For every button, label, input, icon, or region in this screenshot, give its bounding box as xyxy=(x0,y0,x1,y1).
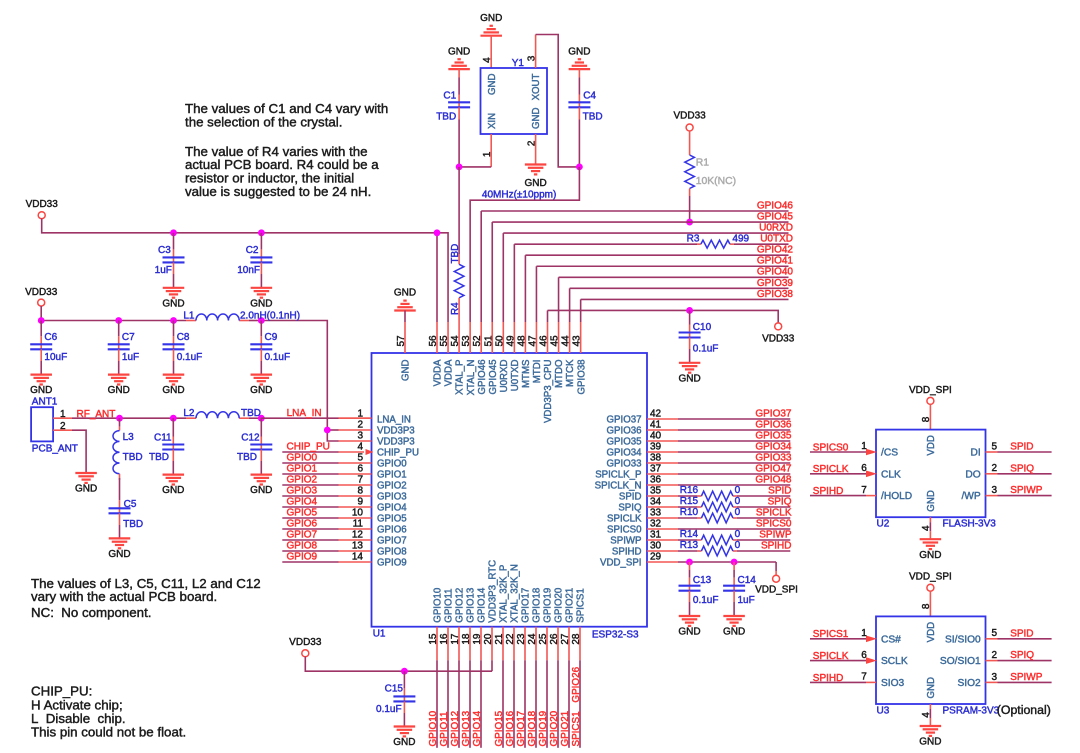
svg-text:GPIO10: GPIO10 xyxy=(433,587,444,623)
svg-text:GPIO20: GPIO20 xyxy=(554,587,565,623)
svg-text:34: 34 xyxy=(650,497,662,508)
svg-text:SPICS1: SPICS1 xyxy=(576,588,587,622)
svg-text:XTAL_P: XTAL_P xyxy=(455,360,466,395)
svg-text:DI: DI xyxy=(971,448,981,459)
wire C4 to gnd xyxy=(578,69,580,102)
wire GPIO9 net xyxy=(282,561,371,563)
svg-text:ESP32-S3: ESP32-S3 xyxy=(592,630,639,641)
svg-text:GPIO5: GPIO5 xyxy=(377,514,407,525)
svg-text:GND: GND xyxy=(531,107,542,129)
svg-text:38: 38 xyxy=(650,453,662,464)
svg-text:(Optional): (Optional) xyxy=(997,703,1051,717)
wire SPIWP net from U3 pin 3 xyxy=(986,681,1052,683)
svg-text:3: 3 xyxy=(992,485,998,496)
svg-text:PSRAM-3V3: PSRAM-3V3 xyxy=(943,706,1000,717)
svg-text:R10: R10 xyxy=(680,507,699,518)
U1 left pin numbers xyxy=(352,409,364,563)
junction C14 xyxy=(731,559,738,566)
Y1 pin 2 wire to gnd xyxy=(535,134,537,165)
svg-text:6: 6 xyxy=(861,463,867,474)
memory chip U3 xyxy=(876,616,1000,716)
wire U3 pin 4 to gnd xyxy=(929,704,931,726)
svg-text:XTAL_32K_P: XTAL_32K_P xyxy=(499,565,510,623)
svg-text:35: 35 xyxy=(650,486,662,497)
svg-text:6: 6 xyxy=(861,650,867,661)
svg-text:5: 5 xyxy=(992,628,998,639)
svg-text:SPIHD: SPIHD xyxy=(813,673,844,684)
svg-text:SPICLK_P: SPICLK_P xyxy=(595,470,641,481)
wire U2 pin 4 to gnd xyxy=(929,517,931,539)
svg-text:NC: No component.: NC: No component. xyxy=(31,605,151,620)
wire SPIWP net from U2 pin 3 xyxy=(986,495,1052,497)
svg-text:GPIO12: GPIO12 xyxy=(450,711,461,747)
svg-text:VDD: VDD xyxy=(926,435,937,455)
svg-text:0.1uF: 0.1uF xyxy=(265,352,291,363)
junction C10 xyxy=(686,307,693,314)
svg-text:GPIO17: GPIO17 xyxy=(516,711,527,747)
wire GPIO2 net xyxy=(282,484,371,486)
svg-text:C7: C7 xyxy=(122,332,135,343)
svg-text:1uF: 1uF xyxy=(122,352,139,363)
wire GPIO1 net xyxy=(282,473,371,475)
svg-text:GPIO48: GPIO48 xyxy=(755,475,792,486)
svg-text:VDD33: VDD33 xyxy=(762,333,795,344)
wire GPIO16 net (bottom) xyxy=(513,627,515,748)
gnd below C15 xyxy=(393,727,415,749)
svg-text:2.0nH(0.1nH): 2.0nH(0.1nH) xyxy=(240,310,300,321)
svg-text:VDD3P3: VDD3P3 xyxy=(377,437,415,448)
svg-text:VDDA: VDDA xyxy=(444,359,455,386)
wire GPIO46 net xyxy=(481,211,788,322)
svg-text:9: 9 xyxy=(357,497,363,508)
wire C2 to gnd xyxy=(260,262,262,287)
junction RF C11 xyxy=(170,415,177,422)
gnd below C11 xyxy=(162,475,184,497)
svg-text:10K(NC): 10K(NC) xyxy=(696,176,736,187)
svg-text:6: 6 xyxy=(357,464,363,475)
svg-text:VDD3P3: VDD3P3 xyxy=(377,426,415,437)
svg-text:GPIO9: GPIO9 xyxy=(287,552,318,563)
svg-text:GPIO18: GPIO18 xyxy=(532,588,543,623)
svg-text:MTCK: MTCK xyxy=(565,359,576,387)
wire C10 upper lead xyxy=(689,310,691,332)
wire GPIO39 net xyxy=(570,288,789,322)
svg-text:L2: L2 xyxy=(183,408,195,419)
svg-text:GPIO2: GPIO2 xyxy=(377,481,407,492)
wire SPICS0 net xyxy=(647,528,790,530)
svg-text:/HOLD: /HOLD xyxy=(881,491,912,502)
svg-text:SPICS1: SPICS1 xyxy=(813,629,849,640)
svg-text:SPID: SPID xyxy=(1010,628,1033,639)
svg-text:U0RXD: U0RXD xyxy=(499,360,510,393)
svg-text:40: 40 xyxy=(650,431,662,442)
wire C6 to gnd xyxy=(40,349,42,374)
svg-text:GND: GND xyxy=(723,627,745,638)
svg-text:GND: GND xyxy=(401,360,412,382)
svg-text:L3: L3 xyxy=(123,432,135,443)
svg-text:GPIO14: GPIO14 xyxy=(472,710,483,746)
wire SPID net from U2 pin 5 xyxy=(986,451,1052,453)
gnd below C13 xyxy=(678,616,700,638)
antenna ANT1 xyxy=(31,397,78,455)
capacitor C7 xyxy=(108,332,139,363)
svg-text:SPICLK_N: SPICLK_N xyxy=(595,481,642,492)
svg-text:GPIO19: GPIO19 xyxy=(543,588,554,623)
wire GPIO8 net xyxy=(282,550,371,552)
capacitor C15 xyxy=(376,684,415,715)
svg-text:1: 1 xyxy=(482,151,493,157)
wire SPIHD net xyxy=(647,550,790,552)
wire SPIWP net xyxy=(647,539,790,541)
wire SPID net from U3 pin 5 xyxy=(986,638,1052,640)
wire GPIO35 net xyxy=(647,440,790,442)
svg-text:MTMS: MTMS xyxy=(521,359,532,388)
svg-text:R1: R1 xyxy=(696,158,710,169)
svg-text:30: 30 xyxy=(650,541,662,552)
wire GPIO47 net xyxy=(647,473,790,475)
wire GPIO19 net (bottom) xyxy=(546,627,548,748)
gnd below C5 xyxy=(108,538,130,560)
svg-text:GND: GND xyxy=(678,373,700,384)
svg-text:U0RXD: U0RXD xyxy=(759,223,793,234)
svg-text:2: 2 xyxy=(527,140,538,146)
wire GPIO11 net (bottom) xyxy=(447,627,449,748)
svg-text:SPICS0: SPICS0 xyxy=(813,442,849,453)
svg-text:SPICS0: SPICS0 xyxy=(607,525,642,536)
resistor R1 xyxy=(685,155,736,189)
junction rail1 C3 xyxy=(170,229,177,236)
wire SPID net xyxy=(647,495,790,497)
power VDD33 rail2 xyxy=(25,287,58,306)
svg-text:GND: GND xyxy=(162,485,184,496)
svg-text:GPIO33: GPIO33 xyxy=(755,453,792,464)
svg-text:GPIO35: GPIO35 xyxy=(607,437,642,448)
svg-text:GPIO2: GPIO2 xyxy=(287,475,318,486)
wire VDD3P3_RTC pin 20 xyxy=(491,627,493,672)
svg-text:1: 1 xyxy=(861,441,867,452)
svg-text:SPID: SPID xyxy=(768,486,791,497)
capacitor C10 xyxy=(679,322,719,354)
wire SPIQ net from U2 pin 2 xyxy=(986,473,1052,475)
svg-text:GND: GND xyxy=(926,677,937,699)
svg-text:GPIO42: GPIO42 xyxy=(757,245,794,256)
svg-text:C2: C2 xyxy=(246,245,259,256)
input arrow U3 pin 1 xyxy=(866,636,877,643)
svg-text:8: 8 xyxy=(357,486,363,497)
svg-text:GND: GND xyxy=(678,627,700,638)
svg-text:MTDO: MTDO xyxy=(554,359,565,388)
svg-text:GPIO47: GPIO47 xyxy=(755,464,792,475)
wire GPIO6 net xyxy=(282,528,371,530)
gnd below C6 xyxy=(30,375,52,397)
svg-text:SI/SIO0: SI/SIO0 xyxy=(945,634,981,645)
svg-text:SPID: SPID xyxy=(619,492,642,503)
wire C12 upper lead xyxy=(260,418,262,444)
svg-text:GPIO9: GPIO9 xyxy=(377,558,407,569)
wire GPIO33 net xyxy=(647,462,790,464)
junction RF C12 xyxy=(258,415,265,422)
wire GPIO20 net (bottom) xyxy=(557,627,559,748)
resistor R3 xyxy=(687,234,750,249)
svg-text:GND: GND xyxy=(250,385,272,396)
capacitor C13 xyxy=(679,575,719,606)
wire SPICLK net to U2 pin 6 xyxy=(810,473,869,475)
svg-text:C5: C5 xyxy=(124,499,137,510)
wire LNA_IN net xyxy=(261,417,371,419)
svg-text:C15: C15 xyxy=(385,684,404,695)
gnd above C4 xyxy=(568,46,590,69)
svg-text:GPIO21: GPIO21 xyxy=(560,710,571,746)
wire R4 to U1 pin 54 xyxy=(458,298,460,322)
junction RF L3 xyxy=(116,415,123,422)
svg-text:GPIO1: GPIO1 xyxy=(377,470,407,481)
svg-text:5: 5 xyxy=(357,453,363,464)
svg-text:GPIO6: GPIO6 xyxy=(287,519,318,530)
svg-text:GPIO5: GPIO5 xyxy=(287,508,318,519)
svg-text:GPIO33: GPIO33 xyxy=(607,459,642,470)
svg-text:7: 7 xyxy=(861,485,867,496)
inductor L3 xyxy=(113,431,143,474)
svg-text:0.1uF: 0.1uF xyxy=(177,352,203,363)
svg-text:GPIO37: GPIO37 xyxy=(607,415,642,426)
svg-text:GND: GND xyxy=(448,46,470,57)
wire C13 to gnd xyxy=(689,591,691,616)
input arrow U2 pin 1 xyxy=(866,449,877,456)
svg-text:GPIO12: GPIO12 xyxy=(455,588,466,623)
gnd below C2 xyxy=(250,288,272,310)
wire CHIP_PU net xyxy=(282,451,364,453)
power VDD_SPI above U2 xyxy=(909,385,952,405)
IC U1 ESP32-S3 xyxy=(372,353,648,641)
svg-text:VDD3P3_RTC: VDD3P3_RTC xyxy=(488,560,499,623)
svg-text:SIO3: SIO3 xyxy=(881,678,905,689)
wire VDD3P3_CPU to VDD33 xyxy=(548,310,779,323)
svg-text:29: 29 xyxy=(650,552,662,563)
power VDD33 bottom xyxy=(289,637,322,657)
svg-text:GPIO6: GPIO6 xyxy=(377,525,407,536)
wire C4 to node XTAL_N xyxy=(578,107,580,167)
capacitor C6 xyxy=(30,332,67,363)
gnd below U3 xyxy=(919,726,941,748)
wire L3 upper lead xyxy=(119,418,121,430)
svg-text:36: 36 xyxy=(650,475,662,486)
svg-text:GPIO8: GPIO8 xyxy=(287,541,318,552)
svg-text:GND: GND xyxy=(393,737,415,748)
svg-text:TBD: TBD xyxy=(241,408,261,419)
wire GPIO10 net (bottom) xyxy=(436,627,438,748)
svg-text:GPIO0: GPIO0 xyxy=(287,453,318,464)
junction rail1 C2 xyxy=(258,229,265,236)
junction rail2 C9 xyxy=(258,317,265,324)
svg-text:ANT1: ANT1 xyxy=(32,397,58,408)
wire U1 pin 1 stub xyxy=(339,417,372,419)
svg-text:42: 42 xyxy=(650,409,662,420)
svg-text:GND: GND xyxy=(487,74,498,96)
svg-text:3: 3 xyxy=(527,55,538,61)
svg-text:GPIO38: GPIO38 xyxy=(757,289,794,300)
svg-text:40MHz(±10ppm): 40MHz(±10ppm) xyxy=(482,190,556,201)
svg-text:GPIO0: GPIO0 xyxy=(377,459,407,470)
svg-text:DO: DO xyxy=(965,469,980,480)
svg-text:XIN: XIN xyxy=(487,113,498,129)
svg-text:39: 39 xyxy=(650,442,662,453)
svg-text:4: 4 xyxy=(921,525,932,531)
wire GPIO7 net xyxy=(282,539,371,541)
svg-text:GPIO13: GPIO13 xyxy=(466,588,477,623)
Y1 pin 3 wire to node XTAL_N xyxy=(536,35,580,167)
svg-text:SIO2: SIO2 xyxy=(957,678,981,689)
svg-text:37: 37 xyxy=(650,464,662,475)
wire C1 to node XTAL_P xyxy=(458,107,460,167)
svg-text:4: 4 xyxy=(357,442,363,453)
svg-text:GPIO41: GPIO41 xyxy=(757,256,794,267)
svg-text:TBD: TBD xyxy=(123,519,143,530)
svg-text:SPICS0: SPICS0 xyxy=(756,519,792,530)
resistor R13 xyxy=(680,540,741,556)
svg-text:CHIP_PU: CHIP_PU xyxy=(377,448,419,459)
gnd above U1 pin 57 xyxy=(394,288,416,311)
wire GPIO5 net xyxy=(282,517,371,519)
svg-text:GND: GND xyxy=(919,550,941,561)
svg-text:10nF: 10nF xyxy=(237,265,260,276)
wire VDD33 rail2 xyxy=(41,306,327,430)
svg-text:GPIO3: GPIO3 xyxy=(377,492,407,503)
wire C10 to gnd xyxy=(689,338,691,363)
svg-text:LNA_IN: LNA_IN xyxy=(287,408,322,419)
svg-text:GPIO16: GPIO16 xyxy=(505,710,516,746)
wire GPIO37 net xyxy=(647,418,790,420)
wire SPIQ net xyxy=(647,506,790,508)
svg-text:U3: U3 xyxy=(877,706,890,717)
svg-text:0.1uF: 0.1uF xyxy=(693,595,719,606)
svg-text:C6: C6 xyxy=(44,332,57,343)
input arrow U2 pin 6 xyxy=(866,471,877,478)
crystal Y1 xyxy=(481,58,548,134)
svg-text:GPIO15: GPIO15 xyxy=(494,710,505,746)
wire GPIO0 net xyxy=(282,462,371,464)
wire C11 to gnd xyxy=(172,450,174,475)
note: C1/C4 crystal text xyxy=(185,101,388,129)
junction VDD3P3 xyxy=(324,427,331,434)
wire C9 upper lead xyxy=(260,321,262,345)
wire U0TXD net xyxy=(514,244,788,322)
svg-text:C11: C11 xyxy=(154,433,172,444)
wire U0RXD net xyxy=(503,233,788,322)
svg-text:SPIHD: SPIHD xyxy=(612,547,642,558)
wire C3 to gnd xyxy=(173,262,175,287)
U1 left pin names xyxy=(377,415,419,569)
svg-text:TBD: TBD xyxy=(149,452,169,463)
svg-text:TBD: TBD xyxy=(237,452,257,463)
gnd above C1 xyxy=(448,46,470,69)
svg-text:0: 0 xyxy=(735,496,741,507)
svg-text:SPIQ: SPIQ xyxy=(618,503,642,514)
svg-text:This pin could not be float.: This pin could not be float. xyxy=(31,725,186,740)
wire SPICS1 net (bottom) xyxy=(579,627,581,748)
U1 right pin names xyxy=(595,415,642,569)
svg-text:SPICLK: SPICLK xyxy=(756,508,792,519)
svg-text:U0TXD: U0TXD xyxy=(760,234,793,245)
wire GPIO45 net xyxy=(492,222,788,322)
svg-text:TBD: TBD xyxy=(450,244,461,264)
svg-text:SPIWP: SPIWP xyxy=(1010,672,1043,683)
svg-text:GPIO10: GPIO10 xyxy=(428,710,439,746)
svg-text:2: 2 xyxy=(992,463,998,474)
capacitor C4 xyxy=(568,90,602,122)
U1 top pin stubs xyxy=(405,322,581,353)
svg-text:GPIO8: GPIO8 xyxy=(377,547,407,558)
resistor R4 xyxy=(454,264,464,298)
wire C11 upper lead xyxy=(172,418,174,444)
junction node XTAL_P xyxy=(456,164,463,171)
wire GPIO13 net (bottom) xyxy=(469,627,471,748)
gnd below C8 xyxy=(162,375,184,397)
svg-text:GND: GND xyxy=(162,298,184,309)
svg-text:U2: U2 xyxy=(877,519,890,530)
svg-text:13: 13 xyxy=(352,541,364,552)
wire C15 to gnd xyxy=(403,701,405,726)
svg-text:GPIO37: GPIO37 xyxy=(755,409,792,420)
gnd ANT1 pin 2 xyxy=(75,473,97,495)
wire C5 to gnd xyxy=(119,513,121,538)
wire GPIO21 net (bottom) xyxy=(568,627,570,748)
svg-text:VDD_SPI: VDD_SPI xyxy=(909,385,952,396)
svg-text:R3: R3 xyxy=(687,234,700,245)
svg-text:GPIO46: GPIO46 xyxy=(477,360,488,395)
svg-text:GPIO4: GPIO4 xyxy=(287,497,318,508)
svg-text:32: 32 xyxy=(650,519,662,530)
svg-text:VDD3P3_CPU: VDD3P3_CPU xyxy=(543,360,554,424)
junction C15 xyxy=(401,668,408,675)
inductor L2 xyxy=(183,408,261,419)
U1 top pin numbers xyxy=(396,335,583,347)
svg-text:31: 31 xyxy=(650,530,662,541)
svg-text:SPIQ: SPIQ xyxy=(1010,463,1034,474)
gnd below C7 xyxy=(108,375,130,397)
svg-text:VDD_SPI: VDD_SPI xyxy=(909,572,952,583)
input arrow U3 pin 6 xyxy=(866,657,877,664)
wire RF_ANT net xyxy=(53,417,261,419)
inductor L1 xyxy=(183,310,300,321)
svg-text:VDD33: VDD33 xyxy=(25,287,58,298)
svg-text:4: 4 xyxy=(482,57,493,63)
svg-text:3: 3 xyxy=(357,431,363,442)
svg-text:8: 8 xyxy=(921,416,932,422)
wire GPIO42 net xyxy=(525,255,788,322)
memory chip U2 xyxy=(876,430,996,530)
svg-text:SPICLK: SPICLK xyxy=(813,464,849,475)
svg-text:C3: C3 xyxy=(158,245,171,256)
svg-text:VDD: VDD xyxy=(926,622,937,642)
wire VDD_SPI net xyxy=(647,562,776,575)
wire Y1 pin 4 xyxy=(490,36,492,68)
svg-text:SPIQ: SPIQ xyxy=(768,497,792,508)
svg-text:GND: GND xyxy=(162,385,184,396)
svg-text:L1: L1 xyxy=(183,310,195,321)
svg-text:TBD: TBD xyxy=(436,111,456,122)
svg-text:8: 8 xyxy=(921,603,932,609)
svg-text:vary with the actual PCB board: vary with the actual PCB board. xyxy=(31,589,217,604)
gnd below C14 xyxy=(723,616,745,638)
wire C3 upper lead xyxy=(173,233,175,258)
junction C13 xyxy=(686,559,693,566)
wire GPIO15 net (bottom) xyxy=(502,627,504,748)
wire VDD3P3 pins 2-3 xyxy=(327,430,371,441)
svg-text:GPIO45: GPIO45 xyxy=(757,211,794,222)
wire SPIHD net to U2 pin 7 xyxy=(810,495,876,497)
svg-text:U1: U1 xyxy=(373,628,386,639)
svg-text:SPIHD: SPIHD xyxy=(761,541,792,552)
